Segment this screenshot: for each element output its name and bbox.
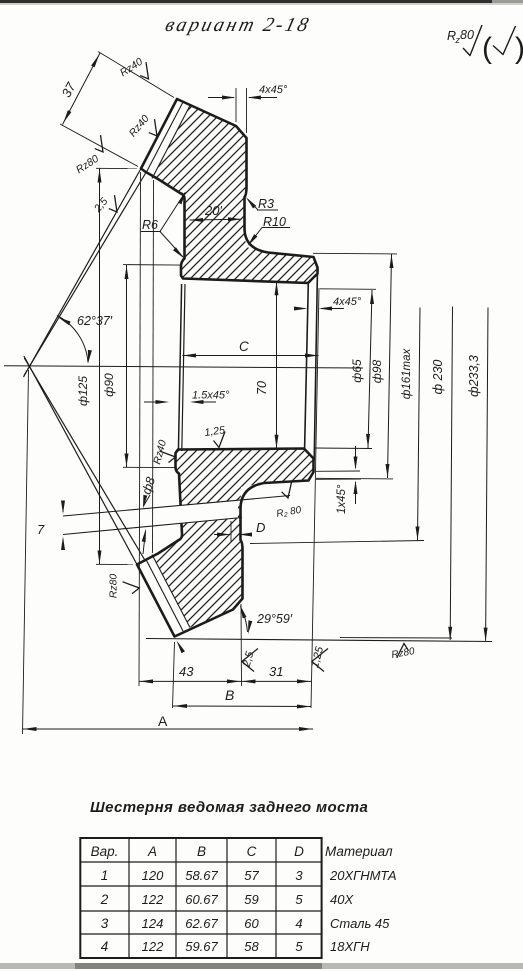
- svg-text:18ХГН: 18ХГН: [330, 939, 370, 954]
- svg-text:A: A: [158, 713, 168, 729]
- wire tooth root line upper band: [152, 106, 190, 179]
- svg-text:ф98: ф98: [370, 359, 384, 383]
- svg-text:3: 3: [101, 916, 109, 931]
- svg-text:R3: R3: [258, 197, 274, 211]
- svg-text:5: 5: [295, 892, 303, 907]
- svg-text:1: 1: [101, 868, 109, 883]
- dimension phi161max rim diameter: [250, 541, 424, 544]
- dimension 29deg59min tip cone angle: [241, 607, 248, 633]
- dimension phi125 back cone diameter: [96, 167, 137, 169]
- svg-text:B: B: [197, 844, 206, 859]
- wire tip edge second line: [340, 637, 452, 639]
- roughness Rz80 on lower back cone: [123, 582, 140, 594]
- wire tooth pitch line upper band: [146, 102, 183, 173]
- dimension B: [173, 642, 175, 708]
- svg-text:62°37′: 62°37′: [77, 314, 113, 328]
- hatching lower gear section: [0, 430, 424, 660]
- dimension 20 web thickness: [190, 218, 242, 221]
- roughness Rz80 hole surface: [280, 481, 294, 498]
- wire centerline gear axis: [4, 366, 363, 368]
- dimension 4x45 top chamfer: [235, 88, 237, 122]
- svg-text:ф233,3: ф233,3: [467, 355, 481, 397]
- wire hole d8 upper wall line: [63, 496, 290, 517]
- svg-text:C: C: [239, 339, 249, 354]
- svg-text:D: D: [256, 520, 265, 535]
- wire tooth root line lower band: [152, 555, 190, 628]
- dimension 62deg37min pitch cone angle: [57, 316, 88, 363]
- wire pitch cone line lower: [24, 356, 137, 565]
- wire root corner projection line: [153, 180, 154, 553]
- roughness 1,25 on right ext line: [312, 649, 328, 672]
- svg-text:вариант 2-18: вариант 2-18: [163, 14, 313, 36]
- roughness Rz40 on tooth flank: [144, 119, 162, 139]
- wire bore opening face edge circle left: [178, 284, 181, 451]
- dimension 70 bore length: [276, 283, 278, 448]
- roughness Rz40 hub left face: [160, 451, 176, 463]
- dimension 37 tooth width: [98, 52, 174, 98]
- svg-text:20′: 20′: [204, 203, 222, 218]
- svg-text:Сталь 45: Сталь 45: [330, 916, 390, 931]
- svg-text:ф125: ф125: [76, 376, 90, 406]
- svg-text:Шестерня ведомая заднего моста: Шестерня ведомая заднего моста: [90, 799, 368, 816]
- dimension 43: [139, 172, 141, 686]
- svg-text:60: 60: [244, 916, 259, 931]
- svg-text:A: A: [147, 844, 157, 859]
- svg-text:R10: R10: [263, 215, 286, 229]
- roughness 1,25 bore surface: [214, 432, 226, 448]
- svg-text:ф161max: ф161max: [401, 347, 413, 399]
- svg-text:31: 31: [269, 664, 283, 679]
- dimension D web to hole: [230, 521, 232, 542]
- svg-text:3: 3: [295, 868, 303, 883]
- gear body lower section outline: [137, 449, 314, 637]
- svg-text:2: 2: [100, 892, 109, 907]
- hatching upper gear section: [0, 0, 523, 330]
- wire bore chamfer edge circle: [305, 284, 309, 449]
- handwritten title variant 2-18: [163, 14, 313, 36]
- svg-text:4: 4: [295, 916, 302, 931]
- dimension 1.5x45 bore chamfer: [144, 401, 158, 403]
- svg-text:1x45°: 1x45°: [336, 484, 348, 514]
- wire tooth pitch line lower band: [146, 560, 183, 632]
- dimension phi98 hub diameter: [313, 252, 397, 255]
- svg-text:70: 70: [255, 381, 269, 395]
- svg-text:20ХГНМТА: 20ХГНМТА: [329, 868, 397, 883]
- svg-text:4x45°: 4x45°: [333, 296, 362, 308]
- gear body upper section outline: [141, 99, 318, 283]
- svg-text:B: B: [225, 687, 234, 703]
- svg-text:4x45°: 4x45°: [259, 84, 288, 96]
- dimension A: [23, 370, 29, 734]
- svg-text:7: 7: [37, 522, 45, 537]
- dimension 1x45 chamfer lower right: [316, 470, 360, 472]
- svg-text:R6: R6: [142, 218, 158, 232]
- svg-text:Материал: Материал: [325, 844, 393, 859]
- scan edge strip top: [0, 0, 492, 3]
- table variants: [80, 838, 321, 958]
- roughness Rz40 on tooth face: [136, 62, 154, 82]
- svg-text:62.67: 62.67: [185, 916, 218, 931]
- scan edge strip bottom: [0, 963, 523, 969]
- dimension phi230: [450, 307, 452, 641]
- svg-text:80: 80: [460, 28, 474, 42]
- dimension phi65 bore: [320, 288, 376, 291]
- svg-text:(: (: [482, 32, 492, 65]
- svg-text:122: 122: [142, 892, 164, 907]
- svg-text:60.67: 60.67: [185, 892, 218, 907]
- svg-text:D: D: [294, 844, 304, 859]
- dimension 4x45 bore chamfer right: [321, 308, 344, 310]
- svg-text:58.67: 58.67: [185, 868, 218, 883]
- svg-text:59.67: 59.67: [185, 939, 218, 954]
- svg-text:): ): [515, 32, 523, 65]
- svg-text:C: C: [247, 844, 257, 859]
- roughness Rz80 on back cone face: [90, 135, 108, 155]
- svg-text:59: 59: [244, 892, 258, 907]
- svg-text:40Х: 40Х: [330, 892, 354, 907]
- svg-text:Rz80: Rz80: [108, 574, 120, 599]
- wire tooth tip edge extension line: [146, 639, 492, 642]
- svg-text:ф65: ф65: [350, 359, 364, 383]
- wire pitch cone line upper: [24, 169, 142, 378]
- dimension phi233.3 outside diameter: [486, 308, 488, 641]
- svg-text:124: 124: [142, 916, 164, 931]
- svg-text:57: 57: [244, 868, 259, 883]
- dimension 7deg hole angle: [62, 502, 64, 512]
- svg-text:122: 122: [142, 939, 164, 954]
- wire hole d8 lower wall line: [63, 518, 242, 535]
- wire bore opening face edge circle: [314, 274, 317, 461]
- svg-text:Вар.: Вар.: [91, 844, 119, 859]
- svg-text:43: 43: [179, 664, 194, 679]
- wire bore chamfer edge circle left: [182, 284, 185, 451]
- svg-text:120: 120: [142, 868, 164, 883]
- svg-text:ф90: ф90: [102, 373, 116, 397]
- roughness 2,5 on ext line: [242, 649, 258, 672]
- svg-text:1.5x45°: 1.5x45°: [192, 390, 230, 402]
- svg-text:29°59′: 29°59′: [256, 612, 293, 626]
- hole d8 bore in lower web: [176, 500, 238, 524]
- svg-text:58: 58: [244, 939, 259, 954]
- svg-text:ф 230: ф 230: [431, 360, 445, 395]
- svg-text:5: 5: [295, 939, 303, 954]
- wire back cone line upper: [24, 173, 146, 376]
- dimension 31: [311, 288, 319, 708]
- roughness 2,5 on back cone: [104, 195, 122, 215]
- svg-text:4: 4: [101, 939, 109, 954]
- dimension phi90: [123, 264, 181, 267]
- wire back cone line lower: [24, 358, 144, 560]
- roughness Rz80 on tip edge line: [397, 643, 409, 659]
